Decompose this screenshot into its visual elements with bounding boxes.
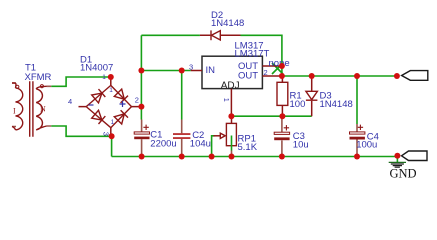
svg-text:N: N: [40, 105, 46, 114]
capacitor C1: [134, 120, 177, 157]
svg-text:IN: IN: [206, 65, 216, 76]
wire: transformer secondary top to bridge: [51, 77, 111, 86]
svg-text:none: none: [269, 58, 290, 69]
svg-text:3: 3: [189, 63, 193, 72]
primary winding: [12, 83, 23, 130]
resistor R1: [277, 76, 305, 116]
polarity minus: [89, 104, 94, 106]
ground terminal: [402, 151, 428, 161]
pin stubs: [191, 66, 282, 116]
diode D3: [306, 76, 353, 116]
LM317 U1 box: [189, 41, 290, 117]
wire: bridge bottom vertex down to ground rail: [111, 136, 113, 156]
ground symbol: [389, 162, 417, 180]
wire: RP1 wiper to ground rail: [212, 136, 215, 157]
svg-text:2200u: 2200u: [150, 138, 176, 149]
transformer T1: [12, 63, 52, 137]
core: [30, 81, 33, 137]
svg-text:1: 1: [102, 74, 106, 81]
svg-text:I: I: [13, 107, 16, 116]
output terminal: [402, 71, 428, 81]
polarity plus: [120, 101, 126, 107]
svg-text:1N4148: 1N4148: [211, 18, 244, 29]
wire: output rail: [282, 75, 397, 77]
wire: bridge right vertex to bus: [139, 106, 142, 108]
svg-text:LM317T: LM317T: [235, 49, 270, 60]
primary phase dot: [16, 85, 19, 88]
triangle: [211, 31, 220, 40]
wire: C2 riser: [181, 71, 183, 120]
svg-text:XFMR: XFMR: [25, 72, 52, 83]
secondary phase dot: [40, 85, 43, 88]
wire: C4 riser: [356, 76, 358, 124]
capacitor C4: [350, 124, 379, 157]
wire: transformer secondary bottom to bridge bottom vertex: [51, 126, 111, 136]
wire: ADJ net: [231, 115, 311, 117]
svg-text:1: 1: [222, 98, 231, 102]
svg-text:5.1K: 5.1K: [238, 142, 258, 153]
capacitor C3: [274, 116, 308, 156]
wire: ground symbol stub: [396, 157, 398, 163]
secondary winding: [36, 86, 46, 130]
secondary pin stubs: [47, 86, 52, 126]
svg-text:100u: 100u: [356, 139, 377, 150]
svg-text:OUT: OUT: [238, 71, 258, 82]
svg-text:2: 2: [135, 96, 139, 105]
svg-text:1N4148: 1N4148: [320, 99, 353, 110]
bridge rectifier D1: [68, 55, 139, 137]
svg-text:1N4007: 1N4007: [80, 63, 113, 74]
primary lead stubs: [12, 83, 16, 127]
svg-text:1: 1: [111, 119, 115, 126]
cathode bar: [210, 30, 212, 40]
svg-text:10u: 10u: [293, 140, 309, 151]
wire: bridge + output vertical main bus: [140, 35, 142, 119]
svg-text:104u: 104u: [190, 139, 211, 150]
wire: bus to D2 anode: [141, 34, 200, 36]
svg-text:ADJ: ADJ: [221, 81, 240, 92]
svg-text:2: 2: [264, 68, 268, 77]
wire: node column down to out rail: [281, 66, 283, 76]
diode BR: [111, 107, 132, 128]
node X marker: [272, 63, 283, 74]
wire: RP1 inner bottom: [231, 136, 233, 151]
diode TL: [86, 85, 111, 106]
svg-text:4: 4: [68, 97, 72, 106]
svg-text:GND: GND: [390, 167, 417, 181]
wire: D2 cathode to node column: [241, 35, 282, 66]
capacitor C2: [173, 120, 211, 157]
wiper arrow: [214, 135, 221, 137]
svg-text:1: 1: [109, 87, 113, 94]
svg-text:100: 100: [290, 99, 306, 110]
potentiometer RP1: [214, 116, 258, 156]
diode BL: [86, 107, 111, 128]
diode D2: [200, 10, 244, 40]
diode TR: [111, 85, 132, 106]
wire: bottom ground rail: [112, 156, 398, 158]
wire: bus to LM317 IN: [141, 70, 190, 72]
stubs: [79, 77, 139, 136]
